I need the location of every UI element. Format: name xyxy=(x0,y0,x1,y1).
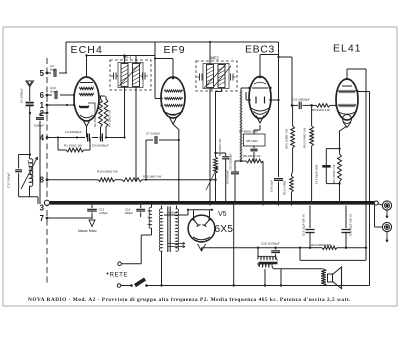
svg-text:500pF: 500pF xyxy=(125,211,133,215)
MF2 trimmer capacitors xyxy=(199,74,201,81)
choke tap wire xyxy=(264,269,266,286)
MF1 primary coil xyxy=(121,64,128,87)
MF1 tuning arrows xyxy=(119,63,141,86)
B+ wire xyxy=(300,259,366,261)
output transformer voice coil xyxy=(321,269,326,286)
wire tuner bottom xyxy=(29,186,31,197)
svg-text:5: 5 xyxy=(40,69,45,78)
capacitor C7-0.05uF xyxy=(146,139,153,141)
MF2 inner box xyxy=(203,64,229,89)
capacitor C19-0.05uF at bus xyxy=(91,204,93,208)
svg-text:C11-22000pF: C11-22000pF xyxy=(228,153,232,170)
mains switch xyxy=(134,278,146,288)
capacitor C10-10000pF xyxy=(292,104,298,106)
resistor R1-15K 1W xyxy=(57,138,59,151)
wire plate branch to C10 node xyxy=(279,56,293,58)
svg-text:R2-150Ω ½W: R2-150Ω ½W xyxy=(93,110,97,127)
screen resistor R2 vertical xyxy=(99,99,103,127)
svg-text:R9-50KΩ ¼W: R9-50KΩ ¼W xyxy=(312,108,330,112)
ECH4 cathode wire to bus xyxy=(86,127,88,138)
svg-text:C3: C3 xyxy=(50,64,54,68)
svg-text:Massa Telaio: Massa Telaio xyxy=(78,229,97,233)
svg-text:C14-25μF-25VL: C14-25μF-25VL xyxy=(315,164,319,184)
RETE label xyxy=(107,273,109,275)
capacitor 1000pF at terminal 2 xyxy=(36,117,44,119)
MF1 trimmer capacitors xyxy=(113,73,115,80)
wire EBC3 grid to shielded lead xyxy=(241,87,250,89)
power transformer primary tap coil xyxy=(149,207,151,228)
MF1 inner box xyxy=(118,63,143,88)
wire EF9 cathode down xyxy=(173,124,179,204)
AVC wire from terminal 8 xyxy=(47,179,98,181)
wire MF2 secondary bottom to volume pot xyxy=(221,89,223,92)
wire EF9 grid left xyxy=(154,42,156,99)
svg-text:C5-10000pF: C5-10000pF xyxy=(92,144,109,148)
antenna xyxy=(26,81,34,87)
speaker field coil body top edge xyxy=(272,267,274,269)
svg-text:C15-10.000pF: C15-10.000pF xyxy=(261,242,280,246)
svg-text:3: 3 xyxy=(40,204,45,213)
MF1 secondary coil xyxy=(133,64,140,87)
capacitor C8-5000pF xyxy=(216,152,226,154)
wire terminal 7 to massa xyxy=(47,217,92,219)
svg-text:500pF: 500pF xyxy=(50,90,58,94)
chassis dashed boundary line xyxy=(46,58,48,283)
wire terminal 6 to ECH4 xyxy=(47,94,52,96)
svg-text:R12-2000Ω/2W: R12-2000Ω/2W xyxy=(311,243,331,247)
MF2 secondary coil xyxy=(218,65,225,88)
cathode capacitor C14 branch xyxy=(326,148,339,150)
EBC3 top cap wire xyxy=(259,55,261,78)
svg-text:1000pF: 1000pF xyxy=(34,124,44,128)
capacitor C6-0.5uF xyxy=(274,178,283,180)
volume potentiometer R6 xyxy=(214,157,218,173)
tube EL41 xyxy=(336,79,358,120)
svg-text:C7-0.05μF: C7-0.05μF xyxy=(146,132,160,136)
svg-text:C8-5000pF: C8-5000pF xyxy=(225,170,229,184)
svg-text:R16-0.5MΩ ½W: R16-0.5MΩ ½W xyxy=(97,170,118,174)
grid resistor R8-0.25M vertical xyxy=(292,105,294,126)
wire diode to load xyxy=(271,99,279,101)
wire MF1 primary bottom xyxy=(124,87,126,138)
tube EF9 xyxy=(161,77,185,118)
tube 6X5 rectifier xyxy=(188,215,215,242)
resistor R12-2000ohm xyxy=(322,246,337,250)
ECH4 top cap wire xyxy=(86,56,88,78)
resistor R15 xyxy=(122,178,142,182)
transformer connections to bus xyxy=(161,206,163,210)
EL41 plate wire to output transformer xyxy=(358,91,370,93)
svg-text:5000pF: 5000pF xyxy=(168,211,178,215)
oscillator coil xyxy=(30,159,33,187)
svg-text:EBC3: EBC3 xyxy=(245,44,275,56)
tube EBC3 xyxy=(249,77,271,119)
svg-text:NOVA RADIO - Mod. A2 - Pro: NOVA RADIO - Mod. A2 - Provvisto di grup… xyxy=(28,297,351,303)
svg-text:C18: C18 xyxy=(50,86,56,90)
resistor R10-0.5M vertical xyxy=(311,105,313,126)
wire tuner top xyxy=(19,154,30,156)
filter choke upper winding xyxy=(257,248,259,259)
capacitor C3 50pF xyxy=(53,69,55,77)
wire right of 6X5 xyxy=(233,204,235,286)
wire MF2 primary top xyxy=(209,42,211,65)
ground bus heavy line xyxy=(50,201,375,205)
capacitor C18-500pF at bus xyxy=(140,204,142,208)
svg-text:R8-10KΩ ¼W: R8-10KΩ ¼W xyxy=(243,154,261,158)
svg-text:6: 6 xyxy=(40,91,45,100)
capacitor C11-22000pF xyxy=(235,160,241,162)
output jack bottom xyxy=(382,222,391,231)
EL41 cathode drop wire xyxy=(340,126,348,154)
wire MF1 secondary top xyxy=(135,56,137,64)
MF2 tuning arrows xyxy=(204,64,226,88)
capacitor C5-10000pF xyxy=(100,134,102,142)
RETE upper terminal xyxy=(118,262,122,266)
svg-text:7: 7 xyxy=(40,214,44,223)
svg-text:50pF: 50pF xyxy=(50,68,56,72)
padder capacitor C17-140pF xyxy=(18,155,20,169)
resistor R12-0.5M vertical lower xyxy=(290,176,294,192)
filter cap C13-32uF-350VL xyxy=(309,206,311,229)
svg-text:R5 1MΩ: R5 1MΩ xyxy=(247,139,259,143)
wire MF2 primary bottom xyxy=(209,89,211,206)
svg-text:RETE: RETE xyxy=(110,272,129,279)
chassis earth arrow Massa Telaio xyxy=(89,220,95,227)
svg-text:+250VL: +250VL xyxy=(311,130,315,141)
filter choke lower winding xyxy=(259,264,272,267)
heater arrows xyxy=(168,242,186,244)
MF2 primary coil xyxy=(207,65,214,88)
svg-text:C4-10000pF: C4-10000pF xyxy=(65,130,82,134)
resistor R5 box xyxy=(244,134,266,146)
svg-text:MF2: MF2 xyxy=(211,56,220,61)
transformer primary bottom wire xyxy=(161,251,163,286)
svg-text:C6-0.5μF: C6-0.5μF xyxy=(270,180,274,192)
power transformer secondary winding xyxy=(176,209,179,251)
resistor R16 xyxy=(98,178,115,182)
filter cap C16-32uF-350VL xyxy=(345,206,347,229)
power transformer core xyxy=(167,207,169,253)
svg-text:R3-30KΩ ¼W: R3-30KΩ ¼W xyxy=(108,109,112,127)
wire antenna to tuner coil xyxy=(29,105,31,154)
svg-text:R8-0.25MΩ ¼W: R8-0.25MΩ ¼W xyxy=(285,129,289,149)
svg-text:ECH4: ECH4 xyxy=(71,44,103,56)
capacitor C4-10000pF xyxy=(87,134,89,142)
shielded grid lead xyxy=(240,88,242,161)
svg-text:C10-10000pF: C10-10000pF xyxy=(292,98,310,102)
svg-text:0.05μF: 0.05μF xyxy=(99,211,108,215)
cathode resistor R11 vertical xyxy=(338,154,342,182)
bus end terminal xyxy=(374,201,378,205)
svg-text:R10-0.5MΩ ¼W: R10-0.5MΩ ¼W xyxy=(303,128,307,148)
svg-text:C16-32μF-350 VL: C16-32μF-350 VL xyxy=(349,213,353,236)
wire terminal 5 to grid box xyxy=(47,72,51,74)
wire EBC3 cathode to R5 box xyxy=(259,125,261,130)
capacitor C1-1000pF xyxy=(26,102,34,104)
6X5 cathode output wire xyxy=(201,248,203,250)
resistor R3 vertical xyxy=(104,99,108,127)
speaker xyxy=(328,274,333,282)
6X5 plate bar wire xyxy=(193,210,195,220)
svg-text:C17-140pF: C17-140pF xyxy=(7,172,11,188)
svg-text:6X5: 6X5 xyxy=(215,224,234,235)
resistor R9-50K horizontal xyxy=(316,104,330,108)
wire MF1 primary top xyxy=(124,56,126,64)
capacitor below R5 xyxy=(253,146,255,148)
wire MF1 secondary bottom to AVC xyxy=(135,87,137,180)
IF transformer MF2 shield dashed box xyxy=(196,61,237,91)
filter choke core bar xyxy=(259,262,278,264)
wire jack to circuit xyxy=(378,204,382,205)
wire terminal 1 to ECH4 xyxy=(47,104,75,106)
svg-text:V5: V5 xyxy=(218,211,227,218)
output jack top xyxy=(382,201,391,210)
capacitor C18 500pF xyxy=(54,91,56,99)
svg-text:R11-500Ω ½W: R11-500Ω ½W xyxy=(332,164,336,183)
EF9 top cap wire xyxy=(172,59,174,78)
svg-text:C13-32μF-350 VL: C13-32μF-350 VL xyxy=(302,213,306,236)
svg-text:EL41: EL41 xyxy=(333,43,362,55)
IF transformer MF1 shield dashed box xyxy=(110,60,151,90)
svg-text:C1-1000pF: C1-1000pF xyxy=(20,88,24,103)
svg-text:EF9: EF9 xyxy=(164,44,186,56)
wire C4/C5 row from terminal 4 xyxy=(47,137,85,139)
RETE lower terminal xyxy=(117,284,121,288)
power transformer primary winding xyxy=(159,209,162,251)
mains wire to transformer xyxy=(147,285,370,287)
tube ECH4 xyxy=(74,77,99,121)
wire terminal 2 branch xyxy=(40,112,47,114)
svg-text:R1-15KΩ 1W: R1-15KΩ 1W xyxy=(64,144,82,148)
ECH4 anode wire to MF1 xyxy=(99,95,105,97)
EL41 top loop wire xyxy=(346,69,348,79)
svg-text:R15-1MΩ ¼W: R15-1MΩ ¼W xyxy=(143,175,162,179)
wire EBC3 plate column xyxy=(278,42,280,177)
HV wire to 6X5 plates xyxy=(164,214,188,216)
grid wire box left of ECH4 xyxy=(65,42,67,73)
wire 1000pF to bus xyxy=(39,121,41,204)
svg-text:R12-0.5MΩ: R12-0.5MΩ xyxy=(283,181,287,195)
